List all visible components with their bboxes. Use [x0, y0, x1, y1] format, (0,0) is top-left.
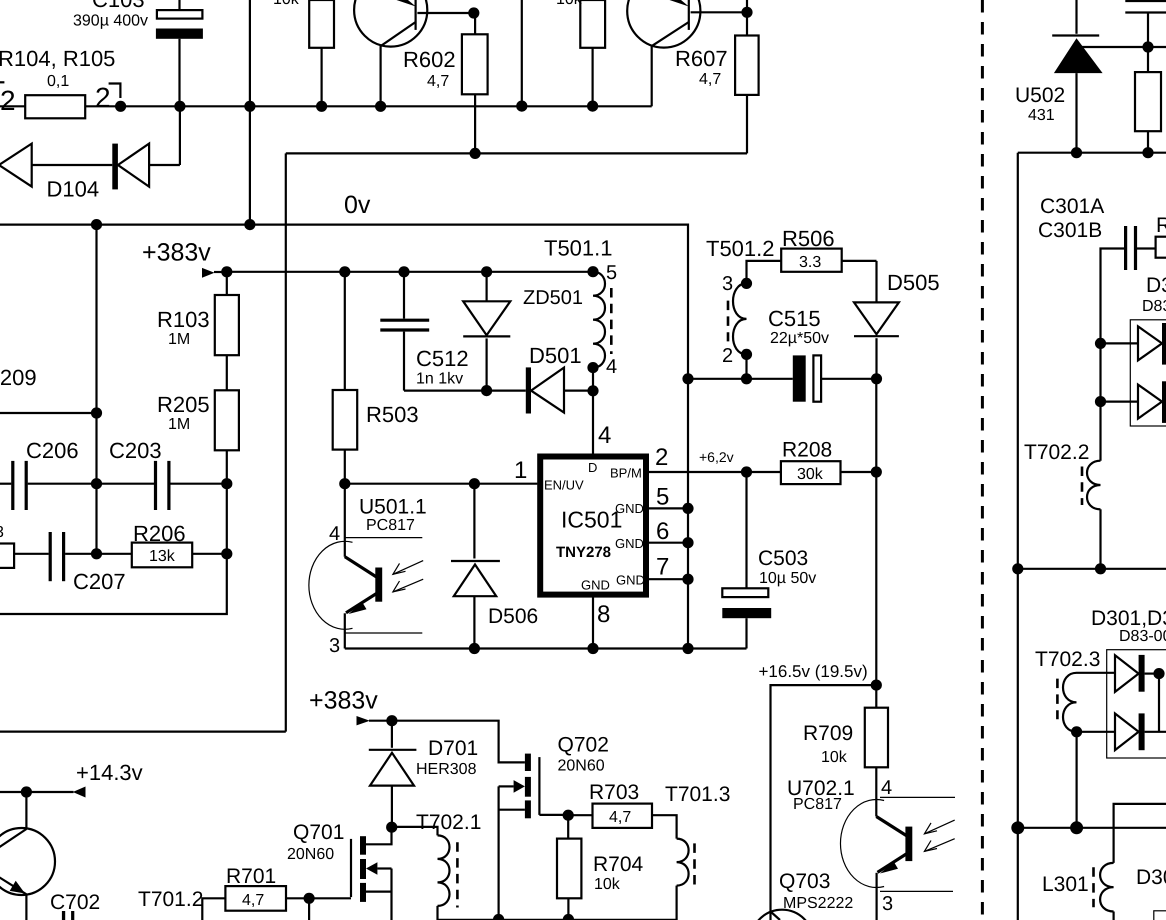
svg-text:4,7: 4,7	[699, 71, 721, 88]
svg-text:D501: D501	[529, 343, 582, 368]
svg-text:L301: L301	[1042, 873, 1089, 896]
arrow +14.3v rail	[73, 787, 86, 798]
svg-text:T501.2: T501.2	[706, 236, 775, 261]
svg-text:7: 7	[656, 554, 669, 581]
svg-text:1M: 1M	[168, 416, 190, 433]
svg-text:4,7: 4,7	[242, 892, 264, 909]
svg-text:2: 2	[722, 345, 733, 367]
svg-text:4: 4	[881, 777, 892, 799]
svg-text:D301,D3: D301,D3	[1091, 607, 1166, 630]
svg-text:R709: R709	[803, 722, 853, 745]
wire vertical from top at x250	[249, 0, 251, 225]
svg-text:C203: C203	[109, 438, 162, 463]
svg-text:BP/M: BP/M	[610, 466, 642, 481]
svg-text:R503: R503	[366, 402, 419, 427]
svg-text:D83-00: D83-00	[1119, 628, 1166, 645]
svg-text:C301A: C301A	[1040, 195, 1104, 218]
svg-text:T701.2: T701.2	[138, 888, 203, 911]
svg-text:MPS2222: MPS2222	[783, 895, 853, 912]
svg-text:10k: 10k	[821, 749, 848, 766]
svg-text:D83-0: D83-0	[1142, 298, 1166, 315]
svg-text:C515: C515	[768, 306, 821, 331]
light arrows into U501.1	[393, 561, 423, 575]
svg-text:R704: R704	[593, 853, 644, 876]
svg-text:D: D	[588, 460, 597, 475]
svg-text:TNY278: TNY278	[556, 544, 611, 561]
svg-text:10k: 10k	[273, 0, 300, 8]
svg-text:EN/UV: EN/UV	[544, 478, 584, 493]
svg-text:D701: D701	[428, 737, 478, 760]
IC U501 IC501 TNY278 box	[540, 457, 646, 595]
svg-text:+383v: +383v	[309, 687, 378, 715]
svg-text:3: 3	[329, 635, 340, 657]
svg-text:+6,2v: +6,2v	[699, 449, 734, 465]
svg-text:2: 2	[655, 444, 668, 471]
svg-text:4,7: 4,7	[427, 73, 449, 90]
svg-text:3: 3	[882, 893, 893, 915]
svg-text:D505: D505	[887, 270, 940, 295]
svg-text:C207: C207	[73, 569, 126, 594]
svg-text:1: 1	[514, 457, 527, 484]
svg-text:T702.1: T702.1	[416, 811, 481, 834]
resistor partial left edge	[0, 544, 14, 568]
svg-text:Q701: Q701	[293, 821, 344, 844]
svg-text:10µ 50v: 10µ 50v	[759, 570, 816, 587]
wire +383v to Q702 drain	[392, 721, 525, 763]
svg-text:PC817: PC817	[366, 517, 415, 534]
node bus junctions	[115, 101, 126, 112]
wire x227 down and left to edge y614	[0, 484, 227, 614]
svg-text:R701: R701	[226, 865, 276, 888]
svg-text:13k: 13k	[149, 548, 176, 565]
svg-text:IC501: IC501	[561, 507, 622, 533]
svg-text:T702.2: T702.2	[1024, 441, 1089, 464]
svg-text:GND: GND	[615, 501, 644, 516]
connector bracket left	[0, 81, 4, 83]
diode D103 (partial, left edge)	[0, 144, 32, 187]
svg-text:Q703: Q703	[779, 870, 830, 893]
svg-text:22µ*50v: 22µ*50v	[770, 330, 829, 347]
svg-text:+14.3v: +14.3v	[76, 760, 143, 785]
wire main primary bus	[85, 105, 652, 107]
light arrows into U702.1	[924, 820, 954, 834]
wire y828 bus	[1018, 827, 1166, 829]
svg-text:10k: 10k	[594, 876, 621, 893]
svg-text:U502: U502	[1015, 84, 1065, 107]
arrow +383v lower rail	[357, 716, 370, 725]
capacitor top-right (partial)	[1125, 0, 1166, 2]
wire U502 cathode to RC node	[1082, 46, 1166, 48]
svg-text:5: 5	[606, 262, 617, 284]
resistor top-right	[1147, 47, 1149, 72]
svg-text:1n 1kv: 1n 1kv	[416, 371, 463, 388]
svg-text:D506: D506	[488, 605, 538, 628]
wire x876 vertical supply	[875, 379, 877, 708]
svg-text:R3: R3	[1156, 214, 1166, 237]
svg-text:C209: C209	[0, 365, 37, 390]
svg-text:GND: GND	[615, 536, 644, 551]
svg-text:4: 4	[606, 356, 617, 378]
svg-text:20N60: 20N60	[287, 846, 334, 863]
connector bracket right pin 2	[109, 84, 121, 99]
svg-text:5: 5	[656, 484, 669, 511]
wire 0v box bottom	[0, 730, 286, 732]
svg-text:+383v: +383v	[142, 239, 211, 267]
wire vertical x96	[95, 225, 97, 554]
wire y569	[1018, 568, 1166, 570]
svg-text:R205: R205	[157, 392, 210, 417]
wire ground bus y648	[345, 647, 747, 649]
svg-text:D30: D30	[1146, 274, 1166, 297]
wire secondary top bus y153	[1018, 152, 1166, 154]
svg-text:0v: 0v	[344, 191, 371, 219]
diode lower in box1	[1101, 401, 1139, 403]
svg-text:PC817: PC817	[793, 796, 842, 813]
diode box D83-004 upper	[1130, 320, 1166, 426]
diode box D83-004 lower	[1107, 650, 1166, 758]
svg-text:8: 8	[597, 601, 610, 628]
wire secondary left vertical x1018	[1017, 153, 1019, 920]
svg-text:R208: R208	[782, 439, 832, 462]
svg-text:GND: GND	[581, 578, 610, 593]
svg-text:4,7: 4,7	[609, 809, 631, 826]
svg-text:390µ 400v: 390µ 400v	[73, 13, 148, 30]
svg-text:R607: R607	[675, 46, 728, 71]
wire T702.3 down to y828	[1075, 732, 1077, 828]
wire 0v box left border	[285, 153, 287, 731]
transistor Q602 (top, partially cut)	[627, 0, 700, 48]
svg-text:431: 431	[1028, 107, 1055, 124]
wire left AC input to R104	[0, 105, 25, 107]
svg-text:20N60: 20N60	[558, 758, 605, 775]
svg-text:T701.3: T701.3	[665, 783, 730, 806]
svg-text:+16.5v (19.5v): +16.5v (19.5v)	[759, 662, 868, 681]
wire into x96 node y413	[0, 412, 97, 414]
resistor R104,R105 0,1	[25, 95, 85, 118]
wire +383v rail y272	[227, 271, 593, 273]
svg-text:D30: D30	[1136, 866, 1166, 889]
svg-text:2: 2	[0, 85, 16, 116]
separator dashed line	[981, 0, 984, 920]
svg-text:R103: R103	[157, 307, 210, 332]
svg-text:3: 3	[0, 524, 4, 541]
svg-text:R703: R703	[589, 781, 639, 804]
svg-text:C503: C503	[758, 547, 808, 570]
box partial bottom right	[1154, 911, 1166, 920]
svg-text:C512: C512	[416, 346, 469, 371]
svg-text:D104: D104	[47, 177, 100, 202]
svg-text:T702.3: T702.3	[1035, 648, 1100, 671]
arrow +383v rail	[202, 268, 215, 278]
transistor Q601 (top, partially cut)	[354, 0, 427, 47]
wire second bus 0v area y224	[0, 225, 688, 649]
diode upper in box2	[1115, 655, 1139, 692]
svg-text:ZD501: ZD501	[523, 287, 583, 309]
svg-text:R104, R105: R104, R105	[0, 46, 115, 71]
svg-text:C206: C206	[26, 438, 79, 463]
svg-text:4: 4	[598, 422, 611, 449]
diode upper in box1	[1101, 342, 1139, 344]
svg-text:3: 3	[722, 273, 733, 295]
svg-text:T501.1: T501.1	[544, 236, 613, 261]
svg-text:C103: C103	[92, 0, 145, 12]
svg-text:10k: 10k	[556, 0, 583, 8]
svg-text:C702: C702	[50, 891, 100, 914]
svg-text:2: 2	[95, 82, 111, 113]
diode lower in box2	[1077, 731, 1115, 733]
svg-text:30k: 30k	[797, 466, 824, 483]
svg-text:C301B: C301B	[1038, 219, 1102, 242]
wire vertical from top at x522	[521, 0, 523, 106]
transistor bottom-left (partial)	[0, 828, 55, 895]
wire 0v box top y153	[286, 152, 747, 154]
svg-text:Q702: Q702	[558, 734, 609, 757]
svg-text:HER308: HER308	[416, 761, 477, 778]
svg-text:0,1: 0,1	[47, 73, 69, 90]
wire stub above R607 junction	[746, 0, 748, 12]
svg-text:R506: R506	[782, 226, 835, 251]
wire bottom bus	[438, 919, 677, 920]
svg-text:R602: R602	[403, 47, 456, 72]
svg-text:U501.1: U501.1	[359, 496, 427, 519]
svg-text:GND: GND	[616, 573, 645, 588]
wire secondary supply node y379	[688, 378, 793, 380]
svg-text:6: 6	[656, 518, 669, 545]
wire +16.5v rail to Q703	[771, 685, 877, 920]
svg-text:3.3: 3.3	[799, 254, 821, 271]
capacitor C301	[1101, 249, 1125, 461]
svg-text:1M: 1M	[168, 331, 190, 348]
